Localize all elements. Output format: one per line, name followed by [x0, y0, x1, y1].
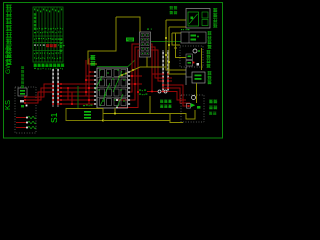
- wire yellow diagonal: [118, 67, 166, 77]
- wire green under U1: [97, 60, 135, 67]
- label right of table: [60, 38, 63, 52]
- label arrow left of U1: [126, 38, 134, 42]
- label above relay box right: [181, 29, 189, 30]
- labels lamp box: [209, 100, 217, 115]
- label coil right: [208, 71, 212, 84]
- title GW1528 vertical: [5, 5, 12, 75]
- label KS: [3, 100, 12, 110]
- label col right mid: [207, 31, 212, 68]
- label above strip right: [147, 29, 152, 30]
- wire red steps: [67, 87, 73, 105]
- wire yellow right trunk: [165, 20, 186, 74]
- label near bend: [91, 55, 96, 66]
- motor box M: [66, 105, 104, 122]
- wire red rows: [58, 72, 94, 105]
- label S1: [49, 112, 59, 123]
- terminal circles: [158, 90, 167, 93]
- label col top right: [213, 8, 217, 28]
- label left of strip: [139, 90, 147, 96]
- component box top right: [186, 9, 210, 29]
- relay pins: [93, 71, 131, 105]
- labels below bus: [160, 100, 172, 108]
- contactor group right: [176, 32, 207, 70]
- terminal strip S1: [52, 69, 59, 107]
- labels under table: [34, 64, 65, 70]
- relay block K1: [95, 68, 128, 108]
- junction dots harness: [116, 75, 139, 108]
- wire red KS elbows: [24, 84, 53, 106]
- svg-text:KS: KS: [3, 100, 12, 110]
- resistors R1-R3: [16, 116, 36, 128]
- coil box right: [186, 67, 205, 85]
- wire red left trunk: [86, 58, 91, 104]
- lamp box bottom right: [181, 83, 204, 122]
- wire red harness U1: [117, 44, 163, 108]
- wire green relay down: [77, 86, 79, 108]
- wire green U1 to K2: [151, 41, 181, 43]
- wire red right bus: [147, 74, 190, 106]
- label above KS: [21, 66, 24, 88]
- wire yellow U1 pins: [146, 57, 148, 67]
- wire yellow top: [88, 17, 140, 64]
- label small top right: [170, 6, 178, 14]
- terminal strip right: [162, 50, 169, 92]
- switch box KS: [15, 87, 36, 133]
- terminal table XT: [33, 7, 65, 62]
- label wire id: [88, 58, 94, 60]
- svg-text:GW1528: GW1528: [5, 46, 12, 74]
- connector U1: [140, 32, 151, 57]
- wire yellow bottom bus: [103, 96, 186, 123]
- svg-text:S1: S1: [49, 112, 59, 123]
- border frame: [3, 2, 223, 139]
